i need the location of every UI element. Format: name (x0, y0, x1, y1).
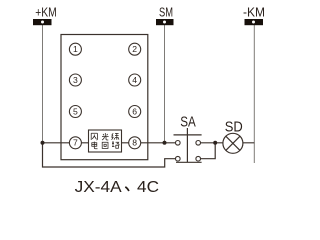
svg-text:4C: 4C (137, 179, 159, 196)
svg-text:SA: SA (180, 114, 196, 131)
svg-text:JX-4A: JX-4A (75, 179, 122, 196)
svg-text:5: 5 (73, 107, 78, 117)
svg-text:7: 7 (73, 138, 78, 148)
svg-text:SM: SM (159, 4, 173, 19)
svg-text:3: 3 (73, 75, 78, 85)
svg-text:1: 1 (73, 44, 78, 54)
svg-text:4: 4 (132, 75, 137, 85)
svg-text:6: 6 (132, 107, 137, 117)
svg-text:+KM: +KM (35, 4, 57, 19)
svg-text:-KM: -KM (243, 4, 265, 19)
svg-text:SD: SD (225, 118, 243, 135)
svg-text:8: 8 (132, 138, 137, 148)
svg-text:2: 2 (132, 44, 137, 54)
